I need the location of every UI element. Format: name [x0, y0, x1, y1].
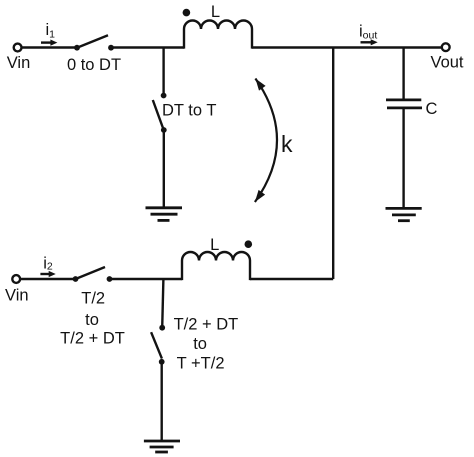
- capacitor C: [386, 100, 422, 108]
- inductor L2: [182, 252, 250, 280]
- current arrow i2: [40, 271, 55, 277]
- ground 3: [144, 441, 180, 452]
- wire L2 to riser: [250, 278, 333, 280]
- svg-text:T/2 + DT: T/2 + DT: [60, 330, 125, 348]
- switch S2 "DT to T": [153, 93, 167, 133]
- node B junction (bottom rail to switch S4): [162, 279, 163, 328]
- terminal Vout: [442, 43, 450, 51]
- svg-text:L: L: [211, 3, 220, 21]
- wire Vin to switch S1: [22, 46, 77, 48]
- terminal Vin (phase 2 input): [12, 275, 20, 283]
- wire S3 to inductor L2: [110, 278, 183, 280]
- wire S4 to ground 3: [160, 362, 162, 441]
- current arrow i1: [41, 40, 57, 46]
- svg-text:k: k: [281, 131, 293, 157]
- svg-text:T +T/2: T +T/2: [177, 355, 225, 373]
- switch S1 "0 to DT": [74, 35, 114, 50]
- svg-text:i2: i2: [43, 254, 53, 272]
- switch S3 "T/2 to T/2+DT": [73, 267, 113, 282]
- wire riser (phase 2 output to top rail): [332, 48, 334, 280]
- svg-text:L: L: [210, 236, 219, 254]
- wire output node to capacitor C: [402, 48, 404, 100]
- svg-text:0 to DT: 0 to DT: [67, 56, 121, 74]
- svg-text:T/2: T/2: [81, 290, 105, 308]
- node A junction (top rail to switch S2): [162, 48, 164, 96]
- switch S4 "T/2+DT to T+T/2": [151, 325, 165, 365]
- wire Vin2 to switch S3: [20, 278, 75, 280]
- polarity dot of L1: [183, 9, 191, 17]
- wire capacitor to ground 2: [402, 108, 404, 208]
- wire S1 to node A / inductor L1: [111, 46, 184, 48]
- svg-text:Vout: Vout: [430, 54, 463, 72]
- svg-text:DT to T: DT to T: [162, 102, 216, 120]
- wire S2 to ground 1: [163, 130, 165, 208]
- svg-text:Vin: Vin: [7, 54, 31, 72]
- polarity dot of L2: [245, 240, 253, 248]
- ground 2: [386, 208, 422, 220]
- ground 1: [146, 208, 183, 221]
- svg-text:Vin: Vin: [5, 287, 29, 305]
- svg-text:C: C: [426, 100, 438, 118]
- svg-text:T/2 + DT: T/2 + DT: [174, 316, 239, 334]
- svg-text:iout: iout: [359, 22, 377, 41]
- current arrow iout: [361, 39, 378, 45]
- svg-text:to: to: [193, 335, 207, 353]
- svg-text:i1: i1: [46, 21, 56, 40]
- svg-text:to: to: [85, 311, 99, 329]
- inductor L1: [184, 21, 252, 49]
- coupling arrow k (double-headed arc): [255, 79, 277, 203]
- terminal Vin (phase 1 input): [14, 44, 22, 52]
- wire L1 to output node: [252, 46, 441, 48]
